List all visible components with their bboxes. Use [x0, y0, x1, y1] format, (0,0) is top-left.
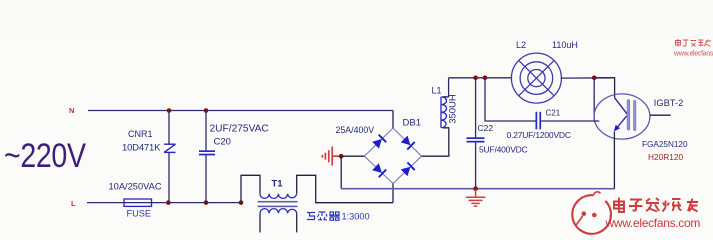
wire N rail [88, 110, 393, 112]
junction dot rail-C21 [483, 76, 488, 81]
junction dot N-CNR1 [167, 108, 172, 113]
wire collector top [594, 78, 614, 98]
svg-text:FGA25N120: FGA25N120 [642, 140, 688, 149]
wire right lead of IGBT [650, 114, 671, 116]
wire bridge plus to L1 [422, 128, 449, 156]
svg-text:0.27UF/1200VDC: 0.27UF/1200VDC [507, 130, 571, 140]
varistor CNR1 branch wire top [168, 111, 170, 145]
svg-text:L: L [71, 199, 76, 208]
wire bridge minus drop [340, 156, 342, 189]
capacitor C21 right lead [541, 78, 594, 121]
svg-text:www.elecfans.com: www.elecfans.com [673, 51, 713, 58]
wire bridge AC bottom riser [392, 184, 394, 203]
wire T1 primary left step [241, 175, 260, 202]
junction dot rail-gate [592, 76, 597, 81]
wire T1 primary right step [297, 175, 393, 202]
wire HV rail right [561, 77, 615, 79]
watermark 电子发烧友 (pseudo glyphs) [614, 198, 698, 213]
capacitor C22 bottom lead [475, 143, 477, 189]
label ~220V [4, 136, 86, 174]
junction dot L-C20 [204, 200, 209, 205]
svg-text:IGBT-2: IGBT-2 [654, 98, 683, 108]
transistor IGBT-2 circle [594, 94, 650, 139]
svg-text:~220V: ~220V [4, 136, 86, 174]
svg-text:350UH: 350UH [448, 94, 459, 124]
transistor IGBT-2 gate bar [627, 100, 630, 131]
junction dot L-CNR1 [166, 200, 171, 205]
wire T1 secondary right lead [296, 213, 298, 232]
diode D-LL [372, 163, 386, 177]
diode D-LR [400, 162, 414, 176]
capacitor C20 branch wire top [205, 111, 207, 151]
wire T1 secondary left lead [259, 213, 261, 232]
junction dot rail-C22 [473, 76, 478, 81]
svg-text:2UF/275VAC: 2UF/275VAC [210, 124, 269, 135]
watermark top right line1 [676, 39, 712, 47]
varistor CNR1 symbol [164, 144, 176, 152]
svg-text:C20: C20 [214, 137, 231, 148]
svg-text:www.elecfans.com: www.elecfans.com [605, 216, 701, 230]
wire L1 top lead [443, 78, 449, 97]
capacitor C21 left lead [485, 78, 536, 121]
junction dot N-C20 [204, 108, 209, 113]
svg-text:5UF/400VDC: 5UF/400VDC [479, 145, 528, 155]
capacitor C21 plates [536, 112, 542, 130]
capacitor C22 top lead [475, 78, 477, 138]
label 互感器 (pseudo glyphs) [307, 212, 340, 220]
svg-text:1:3000: 1:3000 [342, 212, 370, 222]
wire L rail right of fuse [152, 202, 242, 204]
inductor L1 [441, 97, 447, 128]
svg-text:110uH: 110uH [552, 40, 578, 50]
wire bridge minus to junction [341, 155, 364, 157]
bridge rectifier DB1 diamond [364, 128, 421, 184]
capacitor C20 branch wire bottom [205, 155, 207, 202]
svg-text:10D471K: 10D471K [122, 143, 161, 154]
transistor IGBT-2 emitter diagonal with arrow [616, 116, 627, 129]
svg-text:CNR1: CNR1 [128, 129, 153, 139]
capacitor C20 plates [199, 150, 215, 155]
transformer T1 primary winding [260, 194, 297, 199]
junction dot bridge minus [339, 154, 344, 159]
svg-text:25A/400V: 25A/400V [336, 125, 375, 135]
transformer T1 core [258, 201, 298, 207]
svg-text:C21: C21 [546, 109, 561, 118]
svg-text:T1: T1 [272, 179, 284, 190]
transistor IGBT-2 body bar [634, 100, 636, 131]
ground left (red, pointing left) [322, 147, 341, 166]
varistor CNR1 branch wire bottom [168, 152, 170, 202]
capacitor C22 plates [467, 137, 485, 142]
wire ground rail [341, 188, 614, 190]
diode D-UL [372, 135, 386, 149]
wire HV rail left [449, 77, 513, 79]
svg-text:L1: L1 [432, 86, 442, 96]
watermark logo circle [572, 192, 611, 234]
junction dot ground-C22 [473, 186, 478, 191]
transformer T1 secondary winding [260, 209, 297, 214]
svg-text:N: N [69, 106, 74, 115]
wire N drop to bridge top [392, 111, 394, 129]
svg-text:C22: C22 [478, 123, 494, 133]
svg-text:10A/250VAC: 10A/250VAC [109, 181, 162, 191]
svg-text:L2: L2 [516, 40, 526, 50]
diode D-UR [400, 135, 414, 149]
ground bottom (red, below C22) [466, 189, 486, 207]
wire gate stub [594, 120, 599, 122]
fuse F1 body [124, 202, 152, 204]
wire L rail left of fuse [87, 202, 124, 204]
svg-text:FUSE: FUSE [127, 209, 152, 219]
coil L2 (induction coil wheel) [511, 53, 561, 103]
transistor IGBT-2 collector diagonal [615, 98, 628, 114]
svg-text:H20R120: H20R120 [648, 152, 683, 162]
junction dot L-T1 [239, 200, 244, 205]
wire emitter down [613, 132, 615, 189]
svg-text:DB1: DB1 [403, 118, 421, 129]
